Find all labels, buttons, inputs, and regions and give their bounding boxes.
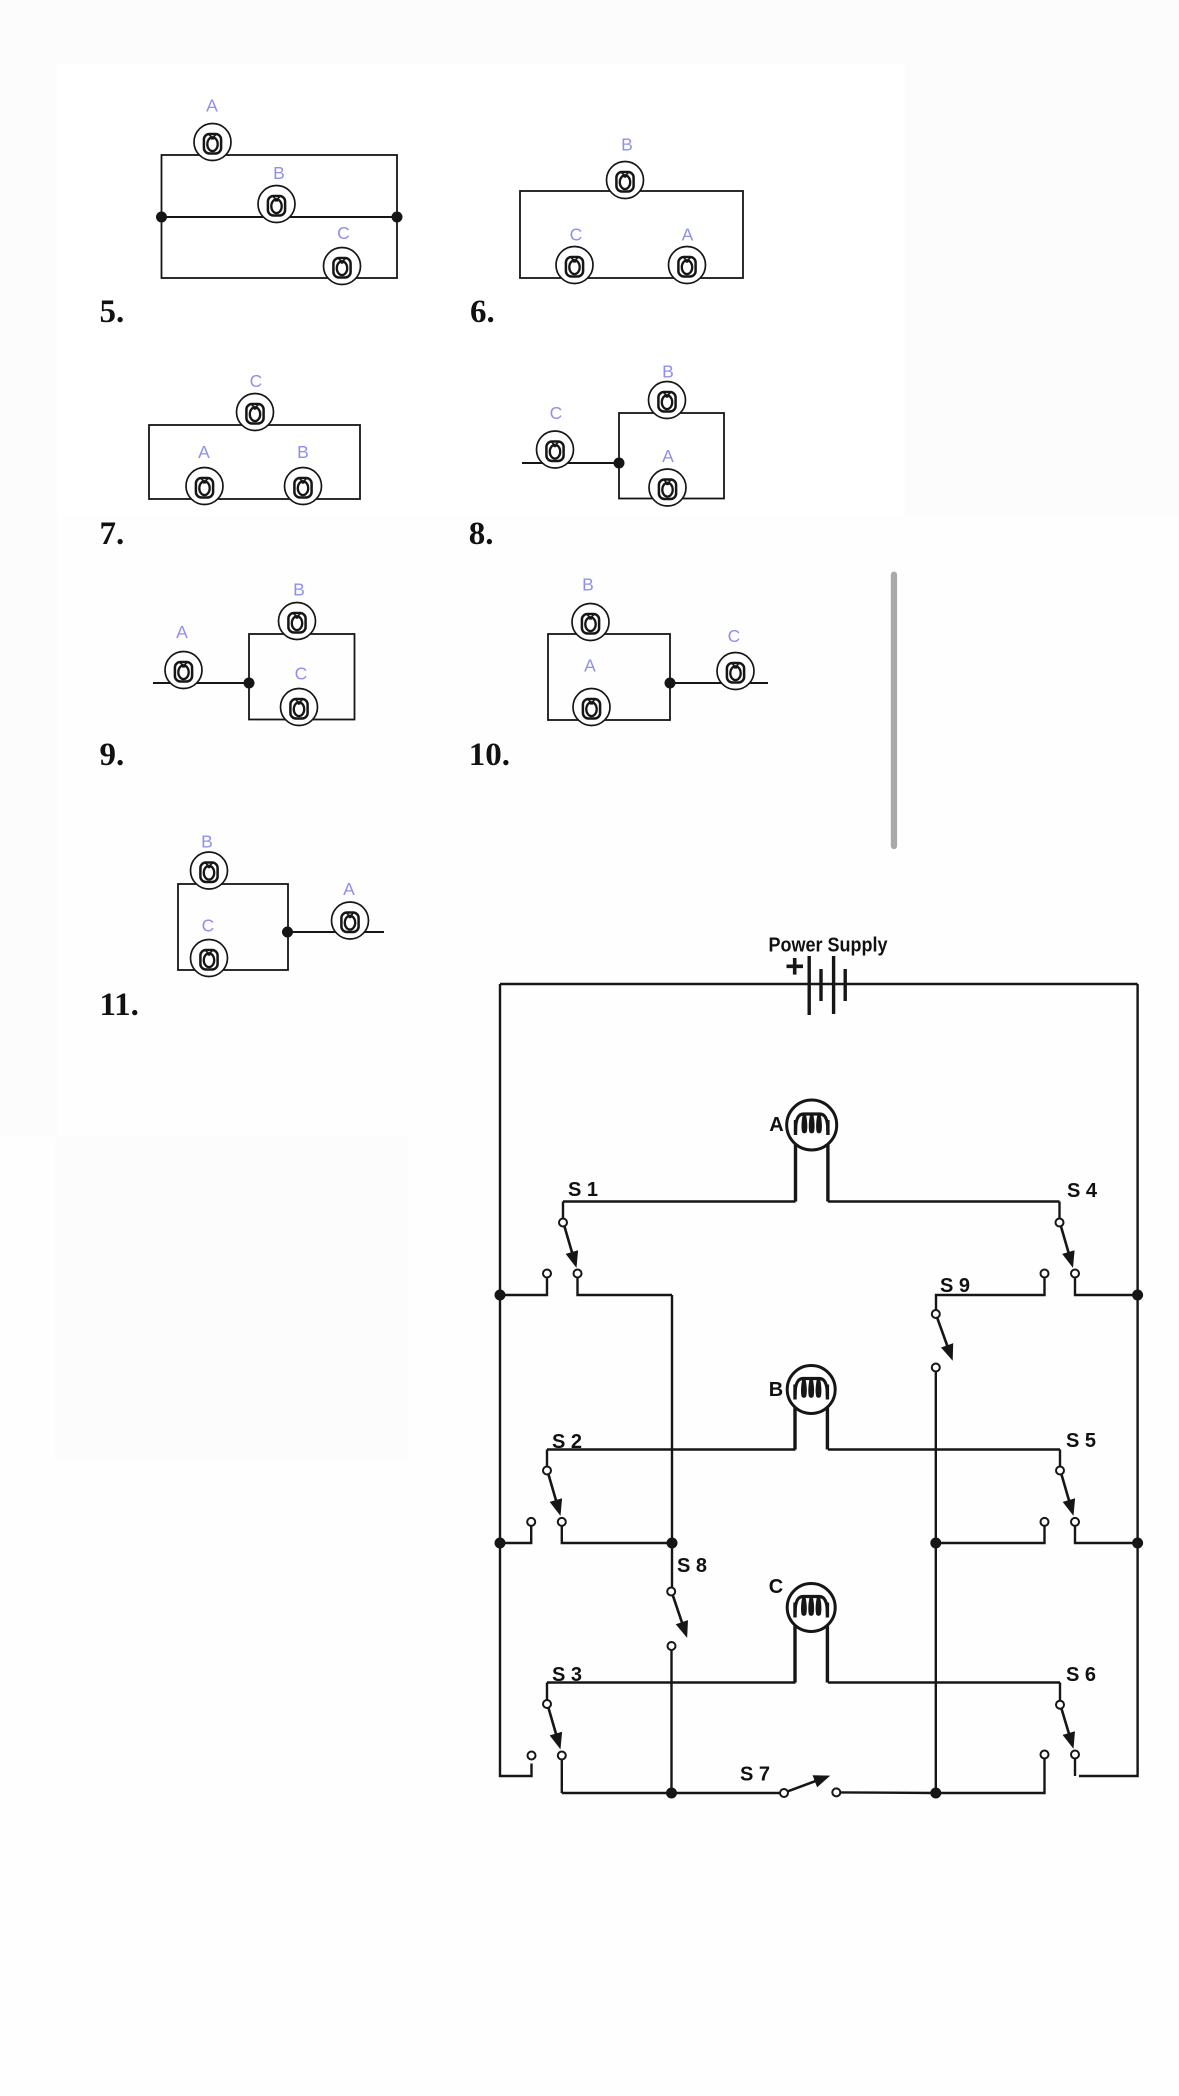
node circuit-9 junction (junction dot) [244,678,255,689]
switch blade S7 (arrow) [788,1777,827,1791]
svg-text:B: B [769,1379,783,1401]
wire S6 right contact to right bus [1074,1759,1076,1777]
node circuit-10 junction (junction dot) [665,678,676,689]
node S8 node (junction dot) [667,1538,678,1549]
lamp A7 [186,468,223,505]
node circuit-5 right junction (junction dot) [392,212,403,223]
wire circuit-8 input lead [522,462,619,464]
wire S2 left-stub to bus [500,1526,531,1543]
lamp A8 [649,469,686,506]
svg-text:S 2: S 2 [552,1431,582,1453]
wire circuit-8 loop (circuit loop) [619,413,724,499]
switch terminal S1 lower-left [543,1270,551,1278]
wire S6 left-stub to bottom rail [936,1759,1045,1794]
wire circuit-10 output lead [670,682,768,684]
wire S6 top lead [1059,1683,1061,1701]
lamp A10 [573,689,610,726]
switch terminal S4 top [1056,1219,1064,1227]
lamp B bulb [787,1366,835,1414]
wire S8 bottom to bottom rail [670,1650,672,1793]
svg-text:A: A [198,442,210,462]
svg-text:A: A [682,225,694,245]
svg-text:11.: 11. [100,987,139,1023]
lamp B11 [191,852,228,889]
lamp B9 [279,603,316,640]
switch terminal S9 top [932,1310,940,1318]
lamp A9 [165,652,202,689]
svg-text:C: C [250,371,263,391]
svg-text:S 3: S 3 [552,1664,582,1686]
svg-text:B: B [582,575,594,595]
switch terminal S4 lower-left [1041,1270,1049,1278]
svg-text:S 5: S 5 [1066,1430,1096,1452]
wire S3 top lead [546,1683,548,1701]
wire top rail [500,983,1138,985]
wire right bus [1079,984,1138,1776]
svg-text:B: B [662,362,674,382]
wire S9 bottom to lower rails [935,1372,937,1794]
switch blade S3 (arrow) [549,1708,560,1746]
svg-text:C: C [550,403,563,423]
wire circuit-6 loop (circuit loop) [520,191,743,278]
wire bottom rail left [562,1792,780,1794]
wire circuit-9 loop (circuit loop) [249,634,355,720]
lamp C left lead [793,1602,796,1683]
svg-text:C: C [337,223,350,243]
lamp A11 [332,902,369,939]
node S9-branch / S5 (junction dot) [930,1538,941,1549]
switch blade S1 (arrow) [565,1227,576,1265]
switch terminal S6 top [1056,1701,1064,1709]
wire S1 left-stub to bus [500,1278,547,1296]
wire circuit-5 middle branch [162,216,398,218]
switch terminal S5 lower-right [1071,1518,1079,1526]
svg-text:7.: 7. [100,516,125,552]
lamp B8 [649,382,686,419]
switch terminal S3 top [543,1700,551,1708]
wire row-C right rail [828,1681,1060,1683]
svg-text:C: C [295,664,308,684]
svg-text:A: A [584,656,596,676]
wire circuit-5 outer loop (circuit loop) [162,155,398,278]
svg-text:B: B [297,442,309,462]
switch terminal S7 left [780,1789,788,1797]
battery plus sign [787,958,804,975]
lamp C right lead [826,1602,829,1683]
switch terminal S8 bottom [668,1642,676,1650]
svg-text:S 7: S 7 [740,1764,770,1786]
switch terminal S5 lower-left [1041,1518,1049,1526]
wire circuit-11 loop (circuit loop) [178,884,288,970]
svg-text:C: C [202,916,215,936]
wire circuit-10 loop (circuit loop) [548,634,670,720]
scrollbar thumb [891,572,897,850]
switch blade S4 (arrow) [1061,1227,1072,1265]
wire S4 top lead [1058,1202,1060,1219]
lamp A bulb [787,1100,837,1150]
node circuit-5 left junction (junction dot) [156,212,167,223]
node circuit-8 junction (junction dot) [614,458,625,469]
switch blade S6 (arrow) [1062,1709,1073,1746]
lamp A5 [194,124,231,161]
node left-bus / S2 (junction dot) [495,1538,506,1549]
svg-text:S 6: S 6 [1066,1664,1096,1686]
wire S3 right contact to bottom rail [561,1760,563,1794]
lamp C5 [324,248,361,285]
node circuit-11 junction (junction dot) [282,927,293,938]
lamp C9 [281,689,318,726]
wire row-C left rail [547,1681,796,1683]
wire S5 left-stub to S9 branch [936,1526,1045,1543]
wire row-A right rail [828,1200,1060,1202]
wire S1 right contact down-right [578,1278,673,1296]
lamp B10 [572,604,609,641]
switch terminal S4 lower-right [1071,1270,1079,1278]
wire circuit-9 input lead [153,682,249,684]
wire row-B right rail [828,1448,1060,1450]
switch terminal S5 top [1056,1467,1064,1475]
lamp B5 [258,186,295,223]
lamp A right lead [826,1118,829,1202]
power supply battery [809,956,845,1015]
wire circuit-11 output lead [288,931,384,933]
svg-text:B: B [201,832,213,852]
svg-text:S 4: S 4 [1067,1180,1098,1202]
wire bottom rail right [840,1791,936,1794]
svg-text:C: C [769,1576,783,1598]
switch blade S8 (arrow) [673,1595,686,1634]
wire S5 right contact to bus [1075,1526,1138,1543]
svg-text:B: B [273,163,285,183]
lamp A left lead [794,1118,797,1202]
page background shading [0,0,1179,64]
switch blade S2 (arrow) [549,1475,560,1513]
switch blade S5 (arrow) [1062,1475,1073,1513]
switch terminal S1 lower-right [574,1270,582,1278]
node right-bus / S4 (junction dot) [1132,1290,1143,1301]
switch terminal S1 top [559,1219,567,1227]
wire S5 top lead [1059,1450,1061,1467]
svg-text:B: B [621,135,633,155]
wire S4 left-stub to S9 [936,1278,1045,1311]
lamp C11 [191,940,228,977]
svg-text:Power Supply: Power Supply [769,935,889,957]
lamp C8 [537,431,574,468]
svg-text:S 8: S 8 [677,1555,707,1577]
lamp B left lead [793,1384,796,1450]
node left-bus / S1 (junction dot) [495,1290,506,1301]
wire row-A left rail [563,1200,796,1202]
wire S4 right contact to bus [1075,1278,1138,1296]
svg-text:6.: 6. [470,294,495,330]
wire row-B left rail [547,1448,796,1450]
switch blade S9 (arrow) [937,1318,951,1358]
node right-bus / S5 (junction dot) [1132,1538,1143,1549]
lamp B right lead [826,1384,829,1450]
lamp C6 [556,247,593,284]
switch terminal S3 lower-right [558,1752,566,1760]
svg-text:A: A [343,879,355,899]
switch terminal S2 top [543,1467,551,1475]
svg-text:A: A [662,446,674,466]
wire circuit-7 loop (circuit loop) [149,425,360,499]
lamp C7 [237,394,274,431]
svg-text:C: C [728,626,741,646]
wire S2 right contact to S8 node [562,1526,672,1543]
lamp B7 [285,468,322,505]
switch terminal S6 lower-left [1041,1751,1049,1759]
svg-text:A: A [176,622,188,642]
switch terminal S7 right [832,1788,840,1796]
svg-text:8.: 8. [469,516,494,552]
wire S1 branch vertical [671,1295,673,1588]
switch terminal S2 lower-left [527,1518,535,1526]
node bottom rail / S9 (junction dot) [930,1788,941,1799]
wire left bus [500,984,532,1776]
svg-text:S 1: S 1 [568,1179,598,1201]
wire S2 top lead [546,1450,548,1467]
lamp A6 [669,247,706,284]
switch terminal S6 lower-right [1071,1751,1079,1759]
switch terminal S3 lower-left [528,1752,536,1760]
lamp B6 [607,162,644,199]
wire S1 top lead [562,1202,564,1219]
switch terminal S2 lower-right [558,1518,566,1526]
svg-text:9.: 9. [100,737,125,773]
switch terminal S9 bottom [932,1364,940,1372]
svg-text:C: C [570,225,583,245]
switch terminal S8 top [667,1588,675,1596]
svg-text:B: B [293,580,305,600]
svg-text:A: A [769,1114,783,1136]
lamp C bulb [787,1584,835,1632]
node bottom rail / S8 (junction dot) [666,1788,677,1799]
svg-text:5.: 5. [100,294,125,330]
svg-text:A: A [206,96,218,116]
lamp C10 [717,653,754,690]
svg-text:10.: 10. [469,737,510,773]
svg-text:S 9: S 9 [940,1275,970,1297]
